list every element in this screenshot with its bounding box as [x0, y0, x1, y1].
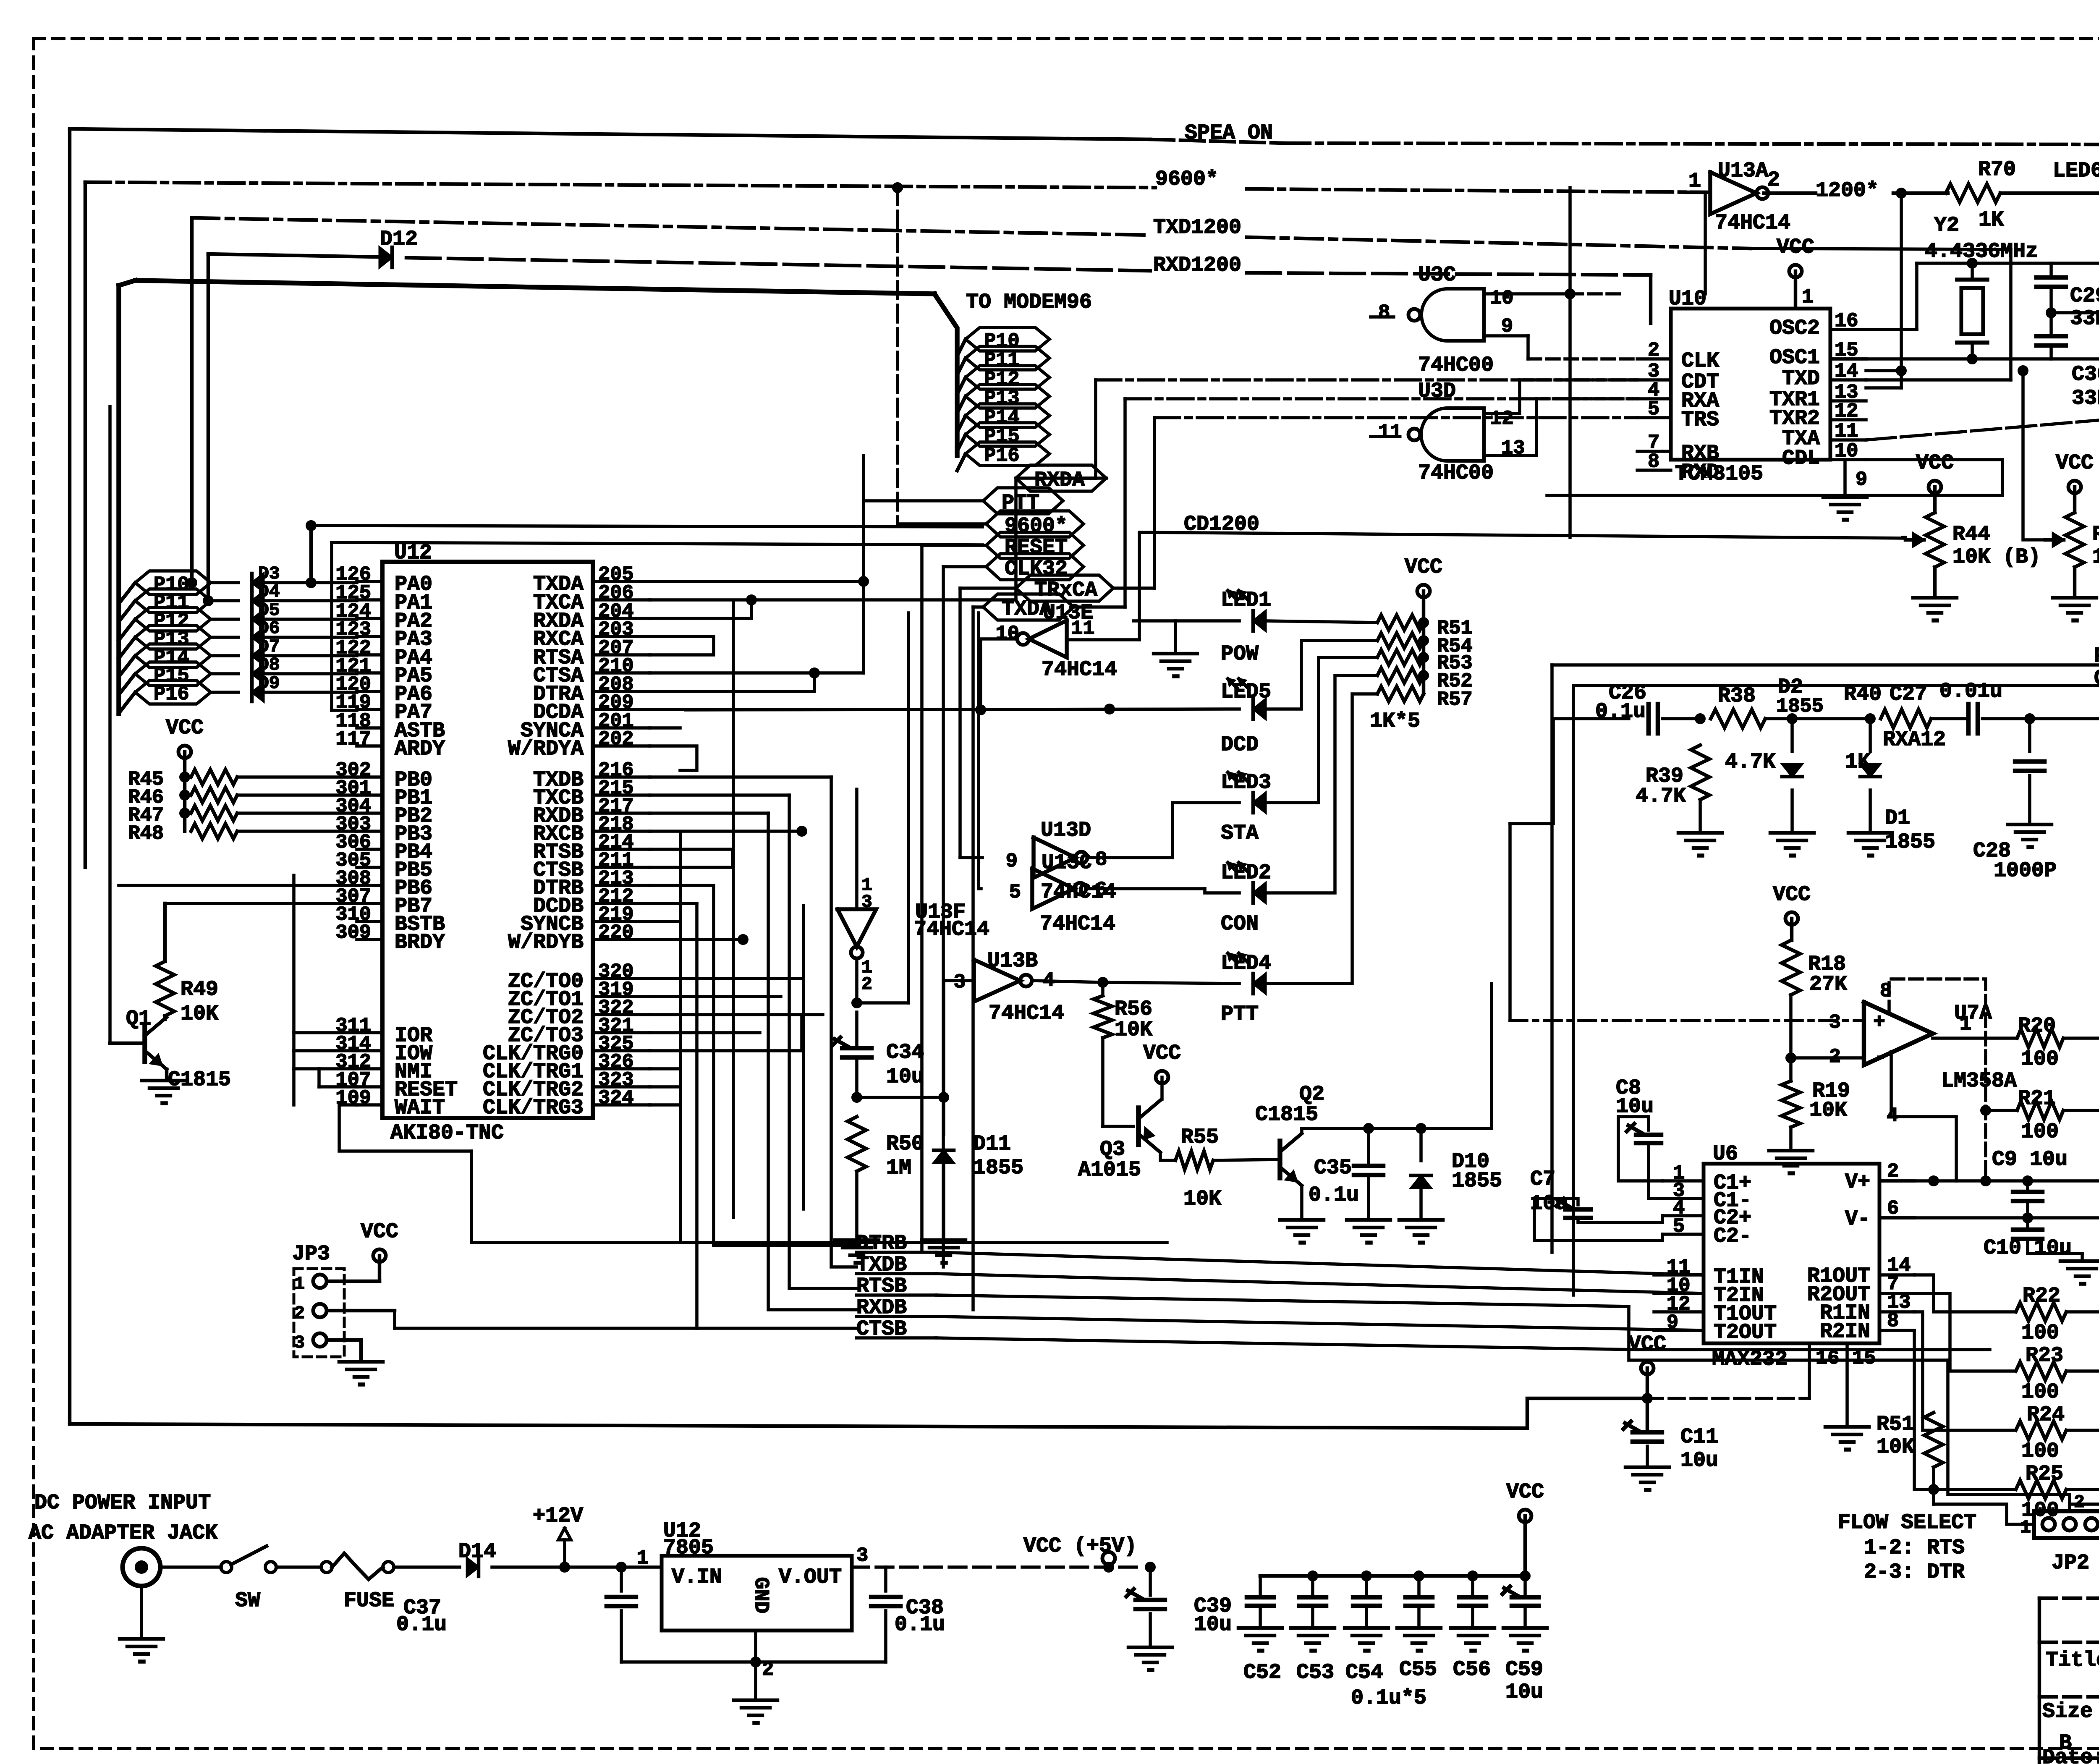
svg-text:JP3: JP3	[292, 1242, 330, 1266]
svg-text:VCC: VCC	[2056, 451, 2094, 475]
wire D7 to U12 pin	[266, 654, 357, 657]
svg-text:U10: U10	[1669, 287, 1706, 311]
capacitor C54	[1353, 1570, 1380, 1626]
svg-text:LED6: LED6	[2053, 159, 2099, 183]
svg-text:R55: R55	[1181, 1125, 1219, 1149]
svg-text:10u: 10u	[1505, 1680, 1543, 1704]
wire OSC1 to crystal bottom node	[1830, 357, 2099, 361]
svg-text:2: 2	[861, 974, 872, 995]
wire P12 fan	[119, 619, 135, 640]
wire C26 to R38	[1662, 713, 1706, 724]
svg-text:LED5: LED5	[1221, 680, 1271, 704]
power VCC resistor bank	[1405, 555, 1442, 694]
U10 pin 5 TRS	[1637, 398, 1719, 432]
svg-text:DCD: DCD	[1221, 733, 1259, 757]
resistor R45	[128, 769, 357, 791]
svg-text:2: 2	[294, 1303, 305, 1324]
U12 pin 119 PA7	[335, 692, 432, 725]
diode D2 1855	[1765, 675, 1870, 777]
svg-text:8: 8	[1378, 302, 1390, 324]
svg-text:POW: POW	[1221, 642, 1259, 666]
svg-text:9: 9	[1856, 469, 1867, 491]
svg-text:10K (B): 10K (B)	[1952, 545, 2041, 569]
wire jumper field feeds	[0, 0, 0, 0]
svg-text:33P: 33P	[2072, 387, 2099, 411]
svg-text:3: 3	[856, 1545, 868, 1567]
gate U3D 74HC00	[1378, 379, 1525, 485]
LED LED3 STA	[1221, 771, 1271, 845]
ground C56	[1451, 1628, 1494, 1651]
label 1200*	[1816, 179, 1879, 203]
svg-text:C55: C55	[1399, 1658, 1437, 1682]
U12 pin 124 PA2	[335, 601, 432, 633]
resistor R24 100	[2016, 1403, 2066, 1463]
capacitor C9 10u	[1992, 1148, 2068, 1218]
wire R24 right	[2066, 1430, 2099, 1430]
U12 pin 210 CTSA	[533, 655, 650, 688]
wire U13D input	[960, 856, 982, 859]
labels cap bank	[1243, 1658, 1543, 1685]
wire jack to SW	[160, 1565, 221, 1569]
capacitor C7 10u	[1528, 1167, 1704, 1234]
svg-text:2: 2	[1767, 168, 1780, 192]
svg-text:VCC: VCC	[1143, 1042, 1181, 1065]
title block frame	[2039, 1598, 2099, 1764]
wire R55 to Q2 base	[1213, 1159, 1280, 1160]
svg-text:1855: 1855	[1452, 1169, 1502, 1193]
svg-text:1K: 1K	[1979, 208, 2004, 232]
svg-text:10K: 10K	[181, 1002, 218, 1026]
svg-text:+: +	[1873, 1011, 1885, 1034]
svg-text:C56: C56	[1453, 1658, 1491, 1682]
svg-text:C59: C59	[1505, 1658, 1543, 1682]
wire rail up to LED4 line	[1268, 984, 1492, 1128]
capacitor C11 10u	[1623, 1421, 1718, 1473]
ground C59	[1503, 1628, 1547, 1651]
U12 pin 307 PB7	[335, 886, 432, 919]
wire P13 fan	[119, 637, 135, 658]
svg-text:P16: P16	[154, 683, 189, 706]
svg-text:1-2: RTS: 1-2: RTS	[1864, 1536, 1965, 1560]
potentiometer R44 10K (B)	[1916, 451, 1954, 513]
U6 pin 14 R1OUT	[1807, 1255, 1914, 1288]
diode D14	[458, 1540, 496, 1576]
svg-text:R49: R49	[181, 978, 218, 1002]
wire P16 fan	[119, 692, 135, 713]
IC U12 AKI80-TNC box	[382, 541, 593, 1145]
wire R44 wiper to R43 wiper	[1905, 365, 2045, 540]
ground R19	[1769, 1127, 1813, 1173]
wire TXA pin11 to R41	[1866, 420, 2099, 440]
U12 pin 314 IOW	[335, 1033, 432, 1066]
resistor R46	[128, 787, 357, 809]
wire SW to FUSE	[276, 1565, 321, 1569]
U12 pin 302 PB0	[335, 759, 432, 792]
capacitor C56	[1459, 1570, 1486, 1626]
U12 pin 204 RXDA	[533, 601, 650, 633]
svg-text:100: 100	[2021, 1120, 2059, 1144]
svg-text:D9: D9	[258, 673, 280, 694]
wire U3D pins	[1371, 380, 1637, 455]
wire U13B input vertical	[942, 981, 945, 1097]
power VCC pullups	[166, 716, 204, 831]
label RXDB net	[856, 1296, 936, 1320]
svg-text:VCC: VCC	[1506, 1480, 1544, 1504]
net flag TRxCA	[1016, 575, 1113, 602]
svg-text:33P: 33P	[2070, 307, 2099, 331]
U12 pin 321 ZC/TO3	[508, 1015, 650, 1048]
wire bottom loop rise to VCC node	[1527, 1398, 1647, 1428]
svg-text:5: 5	[1009, 882, 1021, 904]
ground C52	[1238, 1628, 1282, 1651]
wire RTSB to JP2	[1948, 1360, 2070, 1510]
LED LED6	[2053, 159, 2099, 236]
U12 pin 205 TXDA	[533, 564, 650, 597]
svg-text:74HC14: 74HC14	[989, 1002, 1064, 1026]
wire 1200 branch down to TXR pins	[1866, 193, 1901, 388]
svg-text:A1015: A1015	[1078, 1158, 1141, 1182]
svg-text:W/RDYB: W/RDYB	[508, 931, 584, 955]
wire P11 fan	[119, 601, 135, 622]
wire Q1 collector	[145, 1016, 167, 1036]
wire jack ground	[140, 1586, 143, 1637]
U6 pin 4 C2+	[1662, 1197, 1751, 1230]
wire 1200* to R70	[1893, 191, 1948, 195]
wire TXD pin14 up to TXD1200 line	[1751, 249, 2011, 380]
U12 pin 320 ZC/TO0	[508, 961, 650, 994]
resistor R18 27K	[1782, 940, 1847, 997]
wire crystal leads	[1971, 263, 1974, 359]
svg-text:CON: CON	[1221, 912, 1259, 936]
wire JP2 pin2 up	[2070, 1486, 2099, 1507]
wire cap midpoint to ground	[2046, 307, 2099, 319]
net flag P11 port	[135, 589, 211, 614]
resistor R70 1K	[1946, 158, 2016, 232]
wire U12 B-port rows to bus	[650, 602, 856, 1328]
ground Q2	[1280, 1220, 1324, 1243]
wire R23 right	[2066, 1371, 2099, 1411]
capacitor C59	[1502, 1570, 1539, 1626]
transistor Q2 C1815	[1255, 1083, 1324, 1186]
svg-text:R43: R43	[2092, 523, 2099, 547]
U12 pin 309 BRDY	[335, 922, 445, 955]
U12 pin 109 WAIT	[335, 1087, 445, 1120]
svg-text:ARDY: ARDY	[395, 737, 445, 761]
svg-text:27K: 27K	[1809, 973, 1847, 997]
ground D1	[1848, 790, 1892, 856]
capacitor C34 10u	[833, 1012, 924, 1089]
U10 pin 2 CLK	[1637, 340, 1719, 373]
U12 pin 304 PB2	[335, 796, 432, 828]
capacitor C27 0.01u	[1890, 680, 2002, 733]
svg-text:Q1: Q1	[126, 1007, 151, 1031]
svg-text:LED2: LED2	[1221, 861, 1271, 885]
connector AC adapter jack	[123, 1548, 160, 1586]
net flag P15 port	[135, 662, 211, 687]
transistor Q3 A1015	[1078, 1100, 1160, 1182]
U12 pin 310 BSTB	[335, 904, 445, 937]
wire Q2 collector rail	[1302, 1123, 1492, 1134]
U12 pin 121 PA5	[335, 655, 432, 688]
svg-text:100: 100	[2021, 1321, 2059, 1345]
svg-text:C9 10u: C9 10u	[1992, 1148, 2068, 1172]
wire CTSB line	[936, 1338, 1990, 1350]
diode D8	[211, 654, 280, 683]
net flag P12 to modem96	[957, 366, 1049, 394]
power VCC Q3 emitter	[1143, 1042, 1181, 1099]
op-amp U13C 74HC14 inverter	[1009, 851, 1115, 936]
svg-text:OSC2: OSC2	[1769, 317, 1820, 340]
svg-text:U13D: U13D	[1041, 819, 1091, 843]
transistor Q1 C1815	[126, 1007, 231, 1092]
wire CDL pin10 right-down	[1547, 460, 2002, 495]
U12 pin 213 DTRB	[533, 868, 650, 900]
resistor R40 1K	[1844, 683, 1931, 774]
svg-text:D3: D3	[258, 563, 280, 584]
svg-text:D12: D12	[380, 228, 418, 251]
wire LED3 to R53	[1267, 657, 1377, 803]
wire TXR1 TXR2 joined	[1896, 365, 1907, 376]
U12 pin 107 RESET	[335, 1069, 458, 1102]
diode D12	[379, 228, 418, 267]
wire LED5 row	[686, 704, 1239, 715]
U12 pin 219 SYNCB	[521, 904, 650, 937]
net flag P16 to modem96	[957, 442, 1049, 471]
diode D3	[211, 563, 280, 592]
resistor R38 4.7K	[1711, 684, 1775, 774]
wire R21	[1980, 1105, 2099, 1218]
resistor R51b 10K pulldown	[1877, 1312, 1943, 1467]
power VCC cap bank	[1506, 1480, 1544, 1576]
wire thick to modem96 bundle	[119, 280, 957, 455]
resistor R39 4.7K	[1636, 745, 1709, 809]
ground R43	[2053, 567, 2096, 620]
svg-text:D4: D4	[258, 581, 280, 602]
gate U3C 74HC00	[1378, 263, 1513, 377]
svg-text:74HC00: 74HC00	[1418, 461, 1494, 485]
svg-text:LED3: LED3	[1221, 771, 1271, 795]
U10 pin 8 RXD	[1637, 451, 1719, 484]
IC U12b 7805 box	[637, 1519, 868, 1631]
ground 7805	[734, 1662, 777, 1723]
U12 pin 214 RTSB	[533, 832, 650, 864]
U12 pin 311 IOR	[335, 1015, 432, 1048]
svg-text:0.01u: 0.01u	[1939, 680, 2002, 704]
svg-text:74HC14: 74HC14	[1042, 658, 1117, 682]
U12 pin 122 PA4	[335, 637, 432, 670]
wire flag bundle verticals	[864, 455, 1016, 1310]
svg-text:CLK: CLK	[1681, 349, 1719, 373]
wire JP2 pin1 left	[1934, 1489, 2034, 1524]
svg-text:10K: 10K	[1115, 1018, 1152, 1042]
U12 pin 301 PB1	[335, 777, 432, 810]
svg-text:U13C: U13C	[1042, 851, 1092, 875]
U12 pin 303 PB3	[335, 814, 432, 846]
IC U10 TCM3105 box	[1669, 287, 1830, 486]
svg-text:74HC14: 74HC14	[1715, 211, 1790, 235]
svg-text:BRDY: BRDY	[395, 931, 445, 955]
wire Q1 emitter to ground	[165, 1069, 169, 1079]
U12 pin 120 PA6	[335, 674, 432, 707]
fuse FUSE	[321, 1553, 394, 1613]
power VCC C11 node	[1628, 1332, 1666, 1428]
svg-text:10K (B): 10K (B)	[2092, 545, 2099, 569]
wire FUSE to D14	[394, 1565, 460, 1569]
svg-text:TXD: TXD	[1782, 367, 1820, 391]
wire DTRB line to MAX232	[936, 1252, 1704, 1275]
svg-text:7805: 7805	[663, 1536, 714, 1560]
svg-text:D6: D6	[258, 618, 280, 639]
diode D1 1855	[1860, 713, 1935, 854]
ground C39	[1128, 1647, 1172, 1670]
wire PTT line	[1552, 665, 2099, 1252]
svg-text:11: 11	[1071, 618, 1094, 640]
wire C34 to R50 node	[851, 1057, 949, 1103]
svg-text:0.1u: 0.1u	[396, 1613, 447, 1637]
U6 pin 11 T1IN	[1654, 1256, 1764, 1289]
svg-text:MAX232: MAX232	[1712, 1348, 1788, 1371]
label PTT net	[2094, 644, 2099, 668]
U10 pin 15 OSC1	[1769, 340, 1866, 370]
resistor R20 100	[2017, 1014, 2063, 1071]
resistor R51	[1377, 615, 1473, 640]
wire OSC2 to crystal top node	[1830, 263, 2099, 330]
potentiometer R43 10K (B)	[2056, 451, 2094, 513]
svg-text:U3D: U3D	[1418, 379, 1456, 403]
label TXDB net	[856, 1253, 936, 1277]
svg-text:C53: C53	[1296, 1661, 1334, 1685]
diode D6	[211, 618, 280, 646]
U12 pin 123 PA3	[335, 619, 432, 652]
net flag P14 to modem96	[957, 404, 1049, 432]
svg-text:100: 100	[2021, 1439, 2059, 1463]
net flag CLK32	[986, 554, 1084, 581]
wire PA7 feed vertical	[332, 542, 982, 710]
wire D11 to ground	[942, 1164, 945, 1238]
svg-text:FLOW SELECT: FLOW SELECT	[1838, 1511, 1976, 1535]
U6 pin 12 T1OUT	[1654, 1293, 1777, 1326]
svg-text:WAIT: WAIT	[395, 1096, 445, 1120]
op-amp U7A LM358A	[1829, 980, 2017, 1127]
diode D9	[211, 673, 280, 701]
U12 pin 216 TXDB	[533, 759, 650, 792]
wire U13C output to LED2	[1086, 889, 1239, 893]
svg-text:C35: C35	[1314, 1156, 1352, 1180]
wire 7805 gnd pin2	[750, 1631, 774, 1681]
U10 pin 9 stub	[1845, 460, 1867, 495]
svg-text:+12V: +12V	[533, 1504, 583, 1528]
wire D8 to U12 pin	[266, 672, 357, 675]
svg-text:100: 100	[2021, 1047, 2059, 1071]
wire U13E input from CD1200	[1067, 532, 1139, 640]
svg-text:TXD1200: TXD1200	[1153, 216, 1241, 240]
wire U7A pin4	[1891, 1052, 1956, 1181]
wire TXD1200 horizontal	[192, 218, 1751, 249]
resistor R53	[1377, 650, 1473, 675]
U12 pin 215 TXCB	[533, 777, 650, 810]
net flag P14 port	[135, 644, 211, 669]
wire TXDB line to MAX232	[936, 1274, 1704, 1293]
svg-text:RESET: RESET	[1005, 536, 1068, 560]
svg-text:C54: C54	[1345, 1661, 1383, 1685]
capacitor C28 1000P	[1973, 719, 2057, 883]
wire D14 to regulator	[492, 1562, 662, 1573]
svg-text:VCC: VCC	[1916, 451, 1954, 475]
svg-text:R21: R21	[2018, 1087, 2056, 1111]
svg-text:V-: V-	[1845, 1207, 1870, 1231]
svg-text:1M: 1M	[886, 1156, 911, 1180]
ground jack	[120, 1639, 163, 1662]
crystal Y2 body	[1957, 280, 1987, 343]
svg-text:R70: R70	[1978, 158, 2016, 182]
svg-text:10u: 10u	[886, 1065, 924, 1089]
svg-text:D1: D1	[1885, 806, 1910, 830]
svg-text:VCC: VCC	[166, 716, 204, 740]
label 9600*	[1155, 168, 1218, 191]
capacitor C8 10u	[1616, 1076, 1662, 1199]
resistor R56 10K	[1094, 982, 1152, 1042]
svg-text:C11: C11	[1680, 1425, 1718, 1449]
svg-text:1: 1	[1960, 1013, 1971, 1036]
wire U13F output to bus	[857, 613, 908, 1003]
wire C7 loop	[1534, 1199, 1662, 1241]
ground Q1	[142, 1081, 186, 1103]
U12 pin 324 CLK/TRG3	[483, 1087, 650, 1120]
wire LED1 to ground	[1133, 621, 1239, 652]
wire JP3 pin3 to ground	[327, 1340, 361, 1360]
svg-text:0.1u*5: 0.1u*5	[1351, 1686, 1426, 1710]
svg-text:1: 1	[2020, 1517, 2031, 1538]
svg-text:FUSE: FUSE	[344, 1589, 394, 1613]
label DTRB net	[856, 1232, 936, 1256]
svg-text:D5: D5	[258, 600, 280, 620]
label TO MODEM96	[966, 291, 1092, 314]
wire 9600* vertical from corner	[84, 182, 87, 867]
U6 pins 16 15	[1809, 1343, 1876, 1425]
diode D7	[211, 636, 280, 665]
svg-text:AC ADAPTER JACK: AC ADAPTER JACK	[29, 1521, 217, 1545]
ground JP3	[339, 1362, 383, 1385]
svg-text:1200*: 1200*	[1816, 179, 1879, 203]
svg-text:V.OUT: V.OUT	[779, 1565, 842, 1589]
wire R1IN to R24	[1914, 1312, 2015, 1430]
svg-text:C2-: C2-	[1714, 1225, 1751, 1248]
svg-text:74HC14: 74HC14	[914, 918, 989, 942]
wire R18 to R19	[1789, 995, 1793, 1081]
svg-text:74HC14: 74HC14	[1040, 912, 1115, 936]
svg-text:R24: R24	[2027, 1403, 2065, 1427]
diode D4	[211, 581, 280, 610]
svg-text:RXA12: RXA12	[1883, 728, 1946, 752]
svg-text:4.7K: 4.7K	[1636, 785, 1686, 809]
ground C54	[1345, 1628, 1388, 1651]
U12 pin 206 TXCA	[533, 582, 650, 615]
svg-text:T2OUT: T2OUT	[1714, 1321, 1777, 1345]
svg-text:10u: 10u	[1680, 1449, 1718, 1473]
wire Q2 emitter to ground	[1300, 1186, 1303, 1218]
wire IOR group bus	[294, 875, 357, 1105]
svg-text:DC POWER INPUT: DC POWER INPUT	[34, 1491, 211, 1515]
wire R1OUT to R22	[1914, 1275, 2015, 1312]
label FLOW SELECT	[1838, 1511, 1976, 1584]
svg-text:C29: C29	[2070, 284, 2099, 308]
resistor R57	[1377, 686, 1473, 711]
svg-text:10: 10	[996, 623, 1019, 645]
net flag PTT	[983, 488, 1063, 515]
U6 pin 1 C1+	[1662, 1162, 1751, 1195]
U12 pin 117 ARDY	[335, 728, 445, 761]
capacitor C29 33P	[2036, 263, 2099, 331]
